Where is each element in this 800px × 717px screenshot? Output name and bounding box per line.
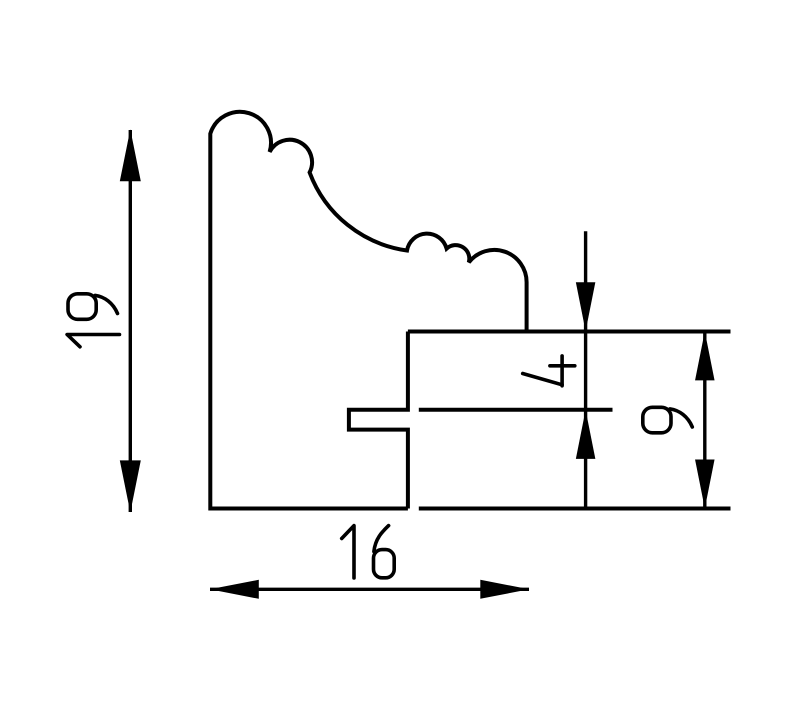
arrowhead 19 top [120,129,141,181]
text 4 (rotated) [523,356,575,386]
middle line (rabbet depth) [419,408,613,412]
arrowhead 9 down [695,460,715,509]
text 16 [342,526,395,578]
dimension line 9 [703,332,706,509]
arrowhead 9 up [695,331,715,380]
bottom line right section [419,507,731,511]
top line of rabbet section [408,330,731,334]
arrowhead 16 left [210,580,259,599]
rabbet right edge with notch [349,332,408,509]
text 19 (rotated) [67,294,119,347]
text 9 (rotated) [643,407,693,433]
dimension line 16 [210,588,529,591]
arrowhead 4 down [576,282,596,331]
arrowhead 19 bottom [120,460,141,512]
arrowhead 4 up [576,410,596,459]
dimension line 4 [584,231,587,508]
arrowhead 16 right [480,580,529,599]
moulding profile outline [210,112,526,509]
dimension line 19 [129,130,132,512]
